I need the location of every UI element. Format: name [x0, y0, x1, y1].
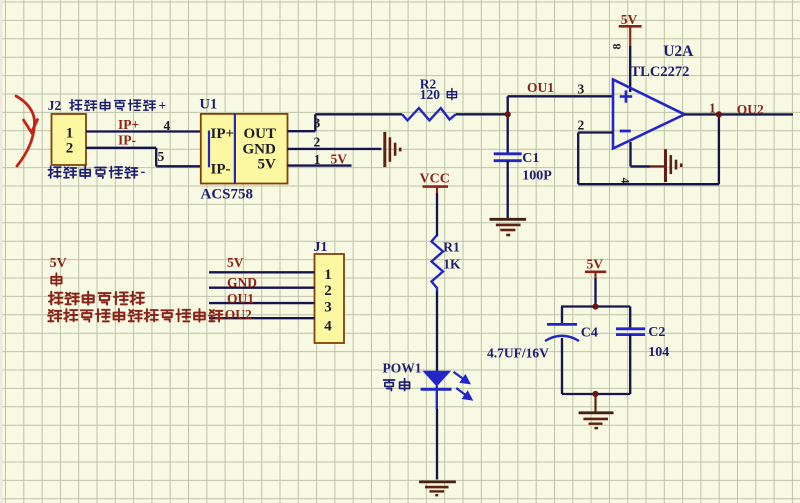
pin number 1 (U1)	[314, 152, 321, 167]
wire C4 branch top	[561, 307, 563, 325]
label C1	[522, 151, 539, 166]
svg-text:IP-: IP-	[211, 162, 231, 178]
svg-text:4.7UF/16V: 4.7UF/16V	[487, 346, 549, 361]
label 100P	[522, 168, 552, 183]
junction cap bottom	[592, 391, 598, 397]
svg-text:5V: 5V	[50, 256, 67, 271]
annotation text 检测电流输入+	[70, 98, 166, 113]
svg-text:2: 2	[314, 135, 321, 150]
annotation text 地	[51, 273, 61, 285]
svg-text:OU1: OU1	[527, 80, 554, 95]
svg-text:104: 104	[648, 345, 669, 360]
wire VCC to R1	[436, 193, 438, 237]
connector J1 body	[315, 254, 345, 343]
net label 5V (J1)	[227, 255, 244, 270]
svg-text:8: 8	[610, 44, 624, 50]
wire feedback bottom	[578, 183, 719, 185]
label POW1	[383, 361, 422, 376]
svg-text:100P: 100P	[522, 168, 552, 183]
wire J1 pin3 OU1	[209, 302, 315, 304]
svg-text:1: 1	[66, 126, 74, 142]
svg-text:IP-: IP-	[118, 133, 136, 148]
pin number 4	[164, 118, 171, 133]
svg-text:OU1: OU1	[227, 291, 254, 306]
J1 pin label 4	[324, 319, 332, 335]
power ground (U1 GND)	[385, 132, 400, 167]
svg-text:OU2: OU2	[225, 307, 252, 322]
wire J1 pin4 OU2	[209, 317, 315, 319]
svg-text:U1: U1	[200, 97, 218, 113]
wire R2 to node OU1	[456, 113, 508, 115]
annotation text 模拟信号输出	[49, 292, 144, 305]
wire 5V to cap rail	[594, 278, 596, 307]
label 120欧	[420, 87, 457, 102]
svg-text:3: 3	[578, 81, 585, 96]
wire opamp output	[685, 113, 794, 115]
U1 text OUT	[244, 126, 277, 142]
annotation red arrow	[16, 96, 38, 166]
svg-text:GND: GND	[243, 141, 277, 157]
net label OU1	[527, 80, 554, 95]
earth ground (cap block)	[579, 413, 614, 428]
wire LED to ground	[436, 409, 438, 480]
wire R1 to LED	[436, 291, 438, 371]
wire opamp pin4 to ground	[631, 142, 665, 166]
pin number 1 (opamp)	[709, 100, 716, 115]
svg-text:VCC: VCC	[420, 171, 450, 186]
svg-text:4: 4	[164, 118, 171, 133]
pin number 2 (U1)	[314, 135, 321, 150]
svg-text:5V: 5V	[258, 157, 277, 173]
pin number 8 (rotated)	[610, 44, 624, 50]
wire U1 OUT pin3	[288, 114, 316, 131]
net label IP+	[118, 117, 139, 132]
label C4	[581, 325, 598, 340]
U1 blue divider line	[234, 114, 236, 185]
svg-text:2: 2	[578, 117, 585, 132]
net label OU2 (J1)	[225, 307, 252, 322]
svg-text:IP+: IP+	[118, 117, 139, 132]
label C2	[648, 325, 665, 340]
svg-text:C4: C4	[581, 325, 598, 340]
wire U1 GND pin2	[288, 148, 382, 150]
capacitor C1	[494, 154, 522, 161]
U1 text GND	[243, 141, 277, 157]
svg-text:J2: J2	[48, 98, 62, 113]
junction node OU2	[716, 111, 722, 117]
svg-text:IP+: IP+	[211, 126, 235, 142]
svg-text:U2A: U2A	[663, 43, 694, 60]
svg-text:ACS758: ACS758	[201, 186, 254, 202]
svg-text:-: -	[141, 164, 146, 180]
svg-text:3: 3	[314, 116, 321, 131]
net label OU2	[737, 102, 764, 117]
svg-text:5V: 5V	[227, 255, 244, 270]
wire cap top rail	[561, 305, 630, 307]
label J1	[314, 240, 328, 255]
svg-text:TLC2272: TLC2272	[631, 64, 690, 80]
earth ground (LED)	[419, 482, 456, 495]
wire C4 branch bottom	[561, 338, 563, 394]
svg-text:J1: J1	[314, 240, 328, 255]
opamp plus sign	[620, 90, 633, 102]
wire C2 branch bottom	[629, 335, 631, 394]
capacitor C2	[616, 329, 645, 335]
svg-text:OUT: OUT	[244, 126, 277, 142]
net label IP-	[118, 133, 136, 148]
svg-text:+: +	[159, 98, 167, 113]
J1 pin label 1	[324, 267, 332, 283]
svg-text:5V: 5V	[621, 12, 638, 27]
label 104	[648, 345, 669, 360]
J1 pin label 3	[324, 300, 332, 316]
svg-text:3: 3	[324, 300, 332, 316]
svg-text:4: 4	[324, 319, 332, 335]
wire cap bottom rail	[562, 393, 630, 395]
J2 pin label 2	[66, 141, 74, 157]
junction node OU1	[505, 111, 511, 117]
IC U1 body	[201, 114, 288, 184]
U1 text IP-	[211, 162, 231, 178]
LED POW1 symbol	[421, 371, 452, 409]
capacitor C4 (polarized)	[545, 324, 579, 341]
svg-text:1: 1	[709, 100, 716, 115]
label J2 header text	[48, 98, 62, 113]
wire feedback right riser	[718, 114, 720, 184]
svg-text:C1: C1	[522, 151, 539, 166]
svg-text:1K: 1K	[443, 257, 461, 272]
J2 pin label 1	[66, 126, 74, 142]
U1 input pin bracket	[208, 131, 210, 168]
svg-text:4: 4	[619, 178, 631, 184]
svg-text:120: 120	[420, 87, 441, 102]
opamp minus sign	[620, 130, 631, 133]
svg-text:1: 1	[314, 152, 321, 167]
pin number 3 (U1)	[314, 116, 321, 131]
junction cap top	[592, 304, 598, 310]
wire J2 pin2 step	[86, 148, 209, 167]
wire feedback left riser	[577, 133, 579, 185]
wire C2 branch top	[629, 307, 631, 329]
wire J2 pin1 to U1 IP+	[86, 130, 209, 132]
label ACS758	[201, 186, 254, 202]
pin number 4 (rotated)	[619, 178, 631, 184]
wire opamp pin2	[578, 131, 613, 133]
wire OU1 riser	[507, 96, 509, 154]
net label OU1 (J1)	[227, 291, 254, 306]
svg-text:5V: 5V	[587, 257, 604, 272]
U1 text IP+	[211, 126, 235, 142]
svg-text:2: 2	[66, 141, 74, 157]
annotation text 5V (left)	[50, 256, 67, 271]
label TLC2272	[631, 64, 690, 80]
wire 5V to opamp pin8	[629, 46, 631, 92]
wire junction to ground	[594, 394, 596, 412]
earth ground (C1)	[490, 219, 527, 235]
svg-text:2: 2	[324, 283, 332, 299]
net label 5V (U1 pin1)	[331, 152, 348, 167]
svg-text:R1: R1	[443, 240, 460, 255]
svg-text:5V: 5V	[331, 152, 348, 167]
wire U1 5V pin1	[288, 164, 352, 166]
annotation text 经过跟随器后的输出信号	[48, 309, 222, 322]
svg-text:5: 5	[158, 149, 165, 164]
wire main to R2	[315, 113, 402, 115]
wire J1 pin2 GND	[209, 287, 315, 289]
resistor R2 zigzag	[402, 108, 456, 120]
label 红色	[384, 379, 410, 391]
power 5V (cap block)	[585, 257, 606, 279]
U1 text 5V	[258, 157, 277, 173]
svg-text:POW1: POW1	[383, 361, 422, 376]
power ground (opamp pin4)	[666, 149, 682, 182]
wire OU1 to opamp pin3	[508, 95, 613, 97]
LED light arrows	[454, 372, 472, 400]
op-amp U2A triangle	[613, 80, 685, 149]
svg-text:GND: GND	[227, 275, 257, 290]
svg-text:C2: C2	[648, 325, 665, 340]
svg-text:1: 1	[324, 267, 332, 283]
label U2A	[663, 43, 694, 60]
pin number 2 (opamp)	[578, 117, 585, 132]
power 5V (opamp)	[619, 12, 642, 46]
net label GND (J1)	[227, 275, 257, 290]
pin number 5	[158, 149, 165, 164]
label 4.7UF/16V	[487, 346, 549, 361]
resistor R1 zigzag	[432, 235, 444, 291]
wire J1 pin1 5V	[209, 271, 315, 273]
label R2	[420, 77, 437, 92]
connector J2 body	[52, 114, 87, 165]
svg-text:OU2: OU2	[737, 102, 764, 117]
label R1	[443, 240, 460, 255]
label 1K	[443, 257, 461, 272]
power VCC	[420, 171, 450, 193]
wire C1 to ground	[507, 161, 509, 219]
pin number 3 (opamp)	[578, 81, 585, 96]
J1 pin label 2	[324, 283, 332, 299]
annotation text 检测电流输入-	[48, 164, 145, 180]
label U1	[200, 97, 218, 113]
